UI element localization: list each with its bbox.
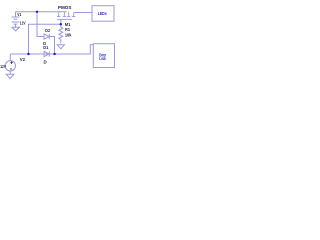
svg-text:LEDs: LEDs	[98, 11, 107, 16]
transistor M1 PMOS	[57, 12, 76, 20]
junction dots	[27, 11, 62, 56]
svg-text:PMOS: PMOS	[58, 5, 72, 10]
source V2	[5, 61, 15, 71]
node D2 drop/bottom rail	[53, 53, 55, 55]
wire V1 top lead	[15, 12, 17, 17]
wire R1 bottom lead	[60, 40, 62, 44]
ground under V2	[6, 74, 14, 78]
svg-text:V2: V2	[20, 57, 26, 62]
wire D2 cathode drop	[49, 37, 54, 55]
ground under R1	[57, 45, 64, 49]
resistor R1	[59, 27, 63, 39]
svg-text:R1: R1	[65, 27, 71, 32]
diode D1 bottom	[44, 51, 49, 56]
node rail/D2 branch	[36, 11, 38, 13]
svg-text:D: D	[44, 59, 47, 64]
box LEDs	[92, 6, 114, 22]
svg-text:12V: 12V	[0, 64, 6, 69]
wire drain to LEDs	[74, 12, 92, 14]
wire gate to V2 node	[29, 24, 61, 54]
wire gate lead	[60, 19, 62, 24]
labels	[0, 5, 72, 69]
svg-text:V1: V1	[17, 12, 22, 17]
ground under V1	[12, 27, 20, 31]
svg-text:D2: D2	[45, 28, 50, 33]
svg-text:10k: 10k	[65, 32, 72, 37]
diode D2 top	[44, 34, 49, 39]
wire bottom rail	[10, 45, 93, 54]
box Door Lock	[93, 44, 114, 68]
wire top rail	[16, 11, 67, 13]
node gate/R1	[60, 23, 62, 25]
wire V1 bottom lead	[15, 24, 17, 27]
wire V2 top lead	[9, 54, 11, 61]
battery V1	[12, 17, 20, 24]
wire rail branch to D2	[37, 12, 44, 37]
svg-text:Lock: Lock	[99, 56, 106, 61]
wire R1 top lead	[60, 24, 62, 27]
wire V2 bottom lead	[9, 71, 11, 74]
node V2/gate wire	[27, 53, 29, 55]
svg-text:D1: D1	[43, 45, 49, 50]
svg-text:12V: 12V	[20, 21, 26, 26]
